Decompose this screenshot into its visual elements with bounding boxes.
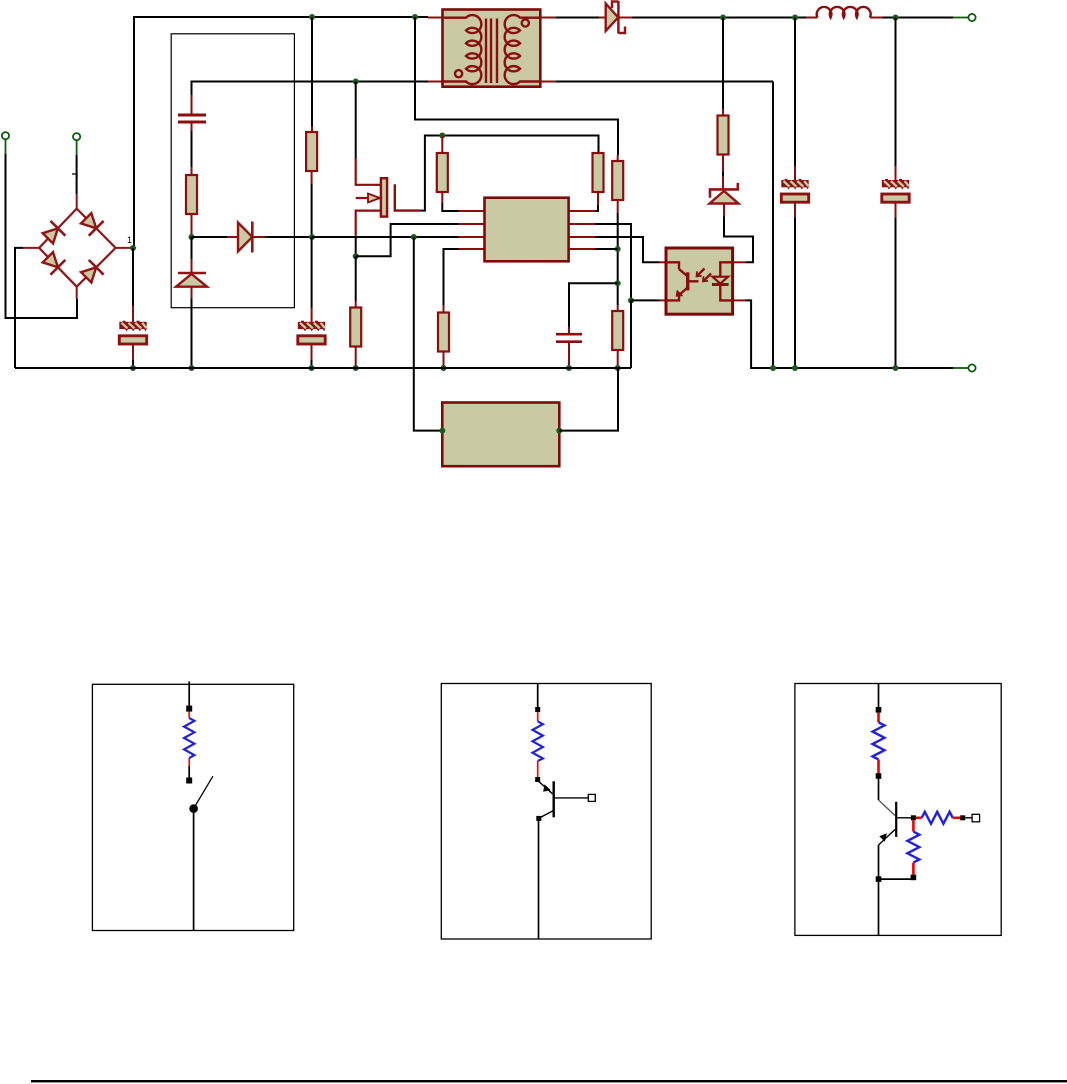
wire: x895.5 down to C6	[895, 18, 897, 167]
node: U3 left pin	[439, 428, 445, 434]
node: bridge plus junction	[130, 245, 136, 251]
node: output rail x723	[720, 15, 726, 21]
node: source sense junction	[353, 253, 359, 259]
switch SW1 lever	[194, 776, 213, 808]
node: R8 bottom / IC pin junction	[615, 246, 621, 252]
bridge diode D_d (bottom-right arm)	[79, 260, 104, 285]
node pad	[876, 876, 882, 882]
transistor Q1 MOSFET channel plate	[381, 178, 387, 216]
node: snubber ground	[189, 365, 195, 371]
wire: secondary top to D1	[556, 17, 599, 19]
subcircuit box 2 (transistor model)	[441, 684, 651, 940]
wire: R5 bottom to IC pin1 right	[595, 205, 598, 211]
node: C4 ground	[566, 365, 572, 371]
node pad	[535, 777, 540, 782]
wire: gate to rail4	[421, 136, 599, 211]
wire: box3 bottom lead	[878, 882, 880, 936]
wire: T1 to bridge AC2	[6, 154, 78, 318]
wire: box1 top lead	[188, 682, 190, 707]
node: C6 ground	[893, 365, 899, 371]
wire: primary ground rail	[15, 367, 631, 369]
wire: to transistor	[878, 779, 880, 800]
wire: x312 startup chain	[311, 17, 313, 126]
inductor L1	[806, 17, 818, 19]
node: snubber junction	[189, 234, 195, 240]
bridge rectifier BR1	[23, 194, 133, 299]
wire: box3 top lead	[878, 684, 880, 708]
wire: U3 right pin up to ground rail	[559, 368, 618, 431]
wire: junction to C4 branch	[569, 283, 618, 327]
capacitor C1 (bulk electrolytic)	[119, 321, 146, 344]
capacitor C6 (output electrolytic 2)	[882, 179, 909, 202]
node pad	[186, 706, 192, 712]
transistor Q3 emitter	[879, 830, 896, 846]
node: R7 ground	[353, 365, 359, 371]
wire: R4 bottom to IC pin1	[442, 203, 458, 211]
node: C1 ground	[130, 365, 136, 371]
node pad	[911, 875, 917, 881]
node: C3 ground	[309, 365, 315, 371]
resistor R4	[441, 136, 443, 154]
node pad	[186, 778, 192, 784]
resistor R10 (feedback divider bottom)	[612, 311, 623, 350]
page rule line	[31, 1080, 1067, 1082]
wire: x723 down to R6	[722, 18, 724, 110]
terminal T3 (V+ out)	[953, 17, 968, 19]
wire: sense junction down to R7	[355, 256, 357, 301]
bridge diode D_a (left-top arm)	[40, 221, 65, 246]
resistor R6 (zener feed)	[718, 116, 729, 155]
resistor R2 (snubber)	[186, 175, 197, 214]
resistor Rs4 (blue, base series)	[916, 816, 922, 819]
wire: opto LED cathode to secondary ground	[745, 300, 953, 368]
wire: box2 top lead	[537, 684, 539, 708]
wire: box2 bottom lead	[538, 821, 540, 939]
wire: x795 down to C5	[794, 18, 796, 167]
node: top rail junction x312	[309, 14, 315, 20]
wire: L1 to output terminal	[883, 17, 954, 19]
resistor Rs3 (blue)	[877, 713, 880, 723]
wire: emitter network join	[879, 878, 914, 880]
op-amp U1 PWM controller IC body	[459, 211, 596, 249]
node: C5 ground	[792, 365, 798, 371]
subcircuit box 3 (biased transistor model)	[795, 684, 1001, 936]
wire: junction to D2	[192, 236, 228, 238]
node: top rail junction x415	[412, 14, 418, 20]
capacitor C5 (output electrolytic)	[781, 179, 808, 202]
wire: D2 cathode to mid rail	[265, 236, 312, 238]
node: mid rail junction x312	[309, 234, 315, 240]
node: rail4 junction R4	[439, 133, 445, 139]
wire: secondary bottom rail	[556, 81, 773, 83]
terminal T4 (0V out)	[953, 367, 968, 369]
node: rail2 junction MOSFET drain	[353, 79, 359, 85]
transistor Q1 gate bar	[395, 184, 421, 210]
terminal T1 (AC live)	[2, 132, 9, 139]
resistor R5	[597, 153, 599, 155]
wire: x312 down to C3	[311, 237, 313, 308]
wire: x415 riser and rail3	[415, 17, 618, 155]
diode D1 (output schottky)	[606, 4, 619, 32]
wire: sense junction to IC pin2 left	[356, 224, 459, 256]
resistor Rs2 (blue)	[537, 712, 539, 721]
node pad	[876, 707, 882, 713]
wire: drain lead	[355, 82, 357, 159]
resistor R3 (startup)	[306, 132, 317, 171]
wire: IC pin3 right to opto collector	[595, 237, 660, 262]
transistor Q1 source arrow	[368, 194, 380, 203]
wire: top primary rail	[134, 17, 428, 248]
svg-text:1: 1	[127, 235, 132, 245]
node: U3 right pin	[556, 428, 562, 434]
node: opto emitter / primary gnd lift	[628, 298, 634, 304]
diode D3 (clamp, in snubber box)	[178, 272, 206, 275]
diode D4 (zener, voltage reference)	[710, 183, 738, 198]
node: output x895.5	[893, 15, 899, 21]
wire: D1 cathode along output rail	[632, 17, 806, 19]
wire: rail2 primary return	[192, 82, 429, 96]
resistor R9	[438, 313, 449, 352]
wire: bridge minus to ground rail	[15, 248, 23, 368]
wire: IC pin4 right to R8 bottom junction	[595, 248, 618, 250]
wire: secondary return riser	[772, 82, 774, 369]
node: R9 ground	[441, 365, 447, 371]
wire: T2 to bridge AC1	[76, 155, 78, 194]
pin label 1 artifact near T2	[72, 174, 77, 178]
terminal square (base drive)	[972, 814, 980, 822]
wire: bridge plus down to C1	[132, 248, 134, 306]
bridge diode D_b (top-right arm)	[79, 211, 104, 236]
snubber subcircuit border box	[171, 34, 294, 308]
node pad	[960, 815, 965, 820]
wire: box1 bottom lead	[193, 812, 195, 931]
wire: IC pin4 left to R9	[444, 249, 459, 305]
diode D2 (snubber blocking)	[238, 223, 252, 252]
bridge diode D_c (left-bottom arm)	[40, 250, 65, 275]
node: secondary gnd x773	[770, 365, 776, 371]
optocoupler U2	[660, 248, 745, 314]
terminal square (base)	[588, 794, 595, 801]
wire: node down to primary ground rail	[630, 301, 632, 369]
resistor Rs1 (blue)	[188, 712, 190, 718]
wire: x413.8 down to U3 left pin	[414, 237, 443, 431]
transistor Q2 (in box2)	[553, 781, 555, 817]
resistor Rs5 (blue, emitter-base)	[912, 820, 915, 831]
node: mid rail junction x413.8	[411, 234, 417, 240]
node: output rail x795	[792, 15, 798, 21]
node pad	[911, 815, 916, 820]
resistor R7 (current sense)	[350, 308, 361, 347]
node pad	[876, 773, 882, 779]
wire: IC pin2 right to opto emitter node	[595, 224, 631, 301]
terminal T2 (AC neutral)	[73, 133, 80, 140]
resistor R8 (feedback divider top)	[612, 161, 623, 200]
wire: mid rail to IC pin3 left	[312, 236, 459, 238]
node pad	[536, 816, 541, 821]
node pad	[535, 707, 540, 712]
transformer TR1	[428, 10, 556, 87]
capacitor C2 (snubber)	[178, 115, 206, 122]
capacitor C3 (Vcc electrolytic)	[298, 321, 325, 344]
node: R10 ground	[615, 365, 621, 371]
switch SW1 pivot	[189, 804, 198, 813]
wire: MOSFET source down	[355, 236, 357, 256]
wire: D3 anode to ground rail	[191, 298, 193, 368]
transistor Q3 (in box3)	[895, 802, 897, 837]
wire: zener anode to opto LED anode	[724, 217, 753, 263]
wire: snubber junction down to D3	[191, 237, 193, 259]
wire: opto emitter to node	[631, 299, 660, 301]
subcircuit box 1 (switch model)	[92, 684, 293, 930]
capacitor C4 (comp)	[556, 334, 582, 342]
node: junction to C4	[615, 280, 621, 286]
box U3 (feedback block)	[442, 403, 559, 467]
